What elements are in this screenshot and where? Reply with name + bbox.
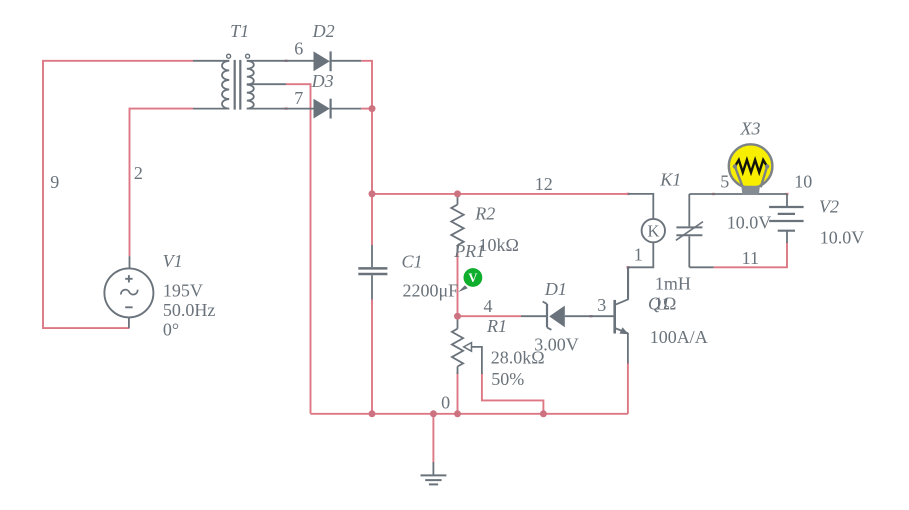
wire speck at coil to collector corner	[627, 266, 630, 269]
svg-text:R1: R1	[486, 316, 507, 336]
label C1	[401, 251, 422, 271]
wire net 7 connection speck	[285, 107, 288, 109]
label T1	[230, 21, 249, 41]
resistor R2	[451, 194, 463, 253]
label V1 value 195V	[163, 281, 203, 301]
ground	[421, 462, 447, 484]
label Q1 value 100A/A	[650, 327, 708, 347]
wire Q1 emitter to rail	[627, 363, 629, 414]
svg-text:2200μF: 2200μF	[403, 280, 459, 300]
svg-text:K1: K1	[659, 169, 681, 189]
svg-text:0: 0	[441, 393, 450, 413]
relay K1 coil	[628, 194, 665, 298]
svg-text:V1: V1	[163, 251, 183, 271]
zener diode D1	[521, 302, 591, 330]
transformer T1 primary lead bottom	[193, 108, 229, 110]
svg-text:50%: 50%	[491, 369, 524, 389]
junction node 12 left	[369, 190, 376, 197]
transformer T1 core	[235, 60, 241, 110]
label net 12	[535, 174, 553, 194]
label net 5	[720, 172, 729, 192]
label net 9	[50, 172, 59, 192]
label net 3	[597, 295, 606, 315]
label R1	[486, 316, 507, 336]
wire bottom rail net 0	[311, 413, 628, 415]
label Q1	[648, 294, 670, 314]
label X3	[740, 119, 761, 139]
label net 7	[294, 88, 303, 108]
wire net 11 gray part	[689, 266, 713, 268]
label D3	[311, 71, 334, 91]
label V2 value right	[820, 228, 865, 248]
svg-text:1Ω: 1Ω	[654, 294, 676, 314]
wire C1 bottom to rail	[371, 299, 373, 414]
transformer T1 secondary phase dot	[246, 54, 250, 58]
label K1 value 1 ohm	[654, 294, 676, 314]
label net 0	[441, 393, 450, 413]
battery V2	[769, 194, 804, 243]
svg-text:C1: C1	[401, 251, 422, 271]
wire net 9 (V1 bottom to T1 primary top)	[43, 61, 193, 328]
label V2	[819, 196, 839, 216]
junction node 7 at D3	[369, 105, 376, 112]
capacitor C1	[358, 245, 387, 300]
label R1 value 28.0k	[491, 347, 545, 367]
wire net 4 (to D1)	[458, 315, 522, 317]
wire R1 wiper return	[482, 373, 544, 414]
wire net 10 speck at battery top	[786, 193, 789, 195]
wire D2 cathode down to C1	[361, 61, 372, 245]
label R1 value 50%	[491, 369, 524, 389]
label net 2	[134, 163, 143, 183]
wire net 5 top rail (contact to battery)	[689, 193, 787, 195]
wire net 11 (battery bottom to contact)	[714, 243, 787, 268]
svg-text:D3: D3	[311, 71, 334, 91]
transistor Q1	[591, 268, 629, 364]
wire net 2 (T1 primary bottom to V1 top)	[130, 109, 194, 257]
transformer T1 primary phase dot	[227, 54, 231, 58]
svg-text:0°: 0°	[163, 319, 179, 339]
label V1 value 50.0Hz	[163, 300, 216, 320]
wire net 5 speck at lamp left	[712, 193, 715, 195]
wire speck at coil feed	[627, 193, 630, 195]
svg-text:195V: 195V	[163, 281, 203, 301]
svg-text:7: 7	[294, 88, 303, 108]
potentiometer R1	[452, 316, 482, 374]
wire R2 bottom to node 4	[457, 248, 459, 316]
wire net 6 connection speck	[285, 60, 288, 62]
svg-text:T1: T1	[230, 21, 249, 41]
svg-text:50.0Hz: 50.0Hz	[163, 300, 216, 320]
svg-text:X3: X3	[740, 119, 761, 139]
junction node 0 at R1	[454, 410, 461, 417]
transformer T1 secondary lead bottom	[247, 108, 314, 110]
wire speck at Q1 base	[590, 315, 593, 317]
junction node 0 at ground	[430, 410, 437, 417]
svg-text:10.0V: 10.0V	[727, 213, 772, 233]
AC source V1	[104, 256, 153, 328]
junction node 4	[454, 313, 461, 320]
svg-text:1mH: 1mH	[655, 273, 691, 293]
wire center tap net 0 (down to bottom rail)	[286, 84, 311, 414]
svg-text:9: 9	[50, 172, 59, 192]
label net 11	[742, 248, 759, 268]
probe PR1	[458, 268, 482, 292]
svg-text:100A/A: 100A/A	[650, 327, 708, 347]
wire D3 cathode to junction	[361, 108, 373, 110]
svg-text:V2: V2	[819, 196, 839, 216]
transformer T1 primary lead top	[193, 60, 229, 62]
label net 4	[484, 296, 493, 316]
label net 6	[294, 39, 303, 59]
svg-text:10.0V: 10.0V	[820, 228, 865, 248]
svg-text:R2: R2	[474, 203, 495, 223]
svg-text:4: 4	[484, 296, 493, 316]
svg-text:PR1: PR1	[453, 241, 485, 261]
label V2 value left	[727, 213, 772, 233]
wiper arrow	[464, 343, 472, 352]
label V1	[163, 251, 183, 271]
junction node 12 at R2	[454, 190, 461, 197]
svg-text:1: 1	[634, 245, 643, 265]
label K1	[659, 169, 681, 189]
svg-text:D2: D2	[312, 21, 335, 41]
junction node 0 at wiper return	[540, 410, 547, 417]
label net 10	[794, 172, 812, 192]
junction node 0 at C1	[369, 410, 376, 417]
wire R1 bottom to rail	[457, 372, 459, 414]
label D1 value 3.00V	[534, 334, 579, 354]
transformer T1 primary winding	[222, 61, 229, 109]
svg-text:2: 2	[134, 163, 143, 183]
svg-text:6: 6	[294, 39, 303, 59]
label R2	[474, 203, 495, 223]
svg-text:3: 3	[597, 295, 606, 315]
svg-text:D1: D1	[544, 279, 567, 299]
wire ground tap	[432, 414, 434, 463]
svg-text:5: 5	[720, 172, 729, 192]
label net 1	[634, 245, 643, 265]
svg-text:12: 12	[535, 174, 553, 194]
svg-text:3.00V: 3.00V	[534, 334, 579, 354]
label V1 value 0 deg	[163, 319, 179, 339]
transformer T1 center tap lead	[247, 83, 286, 85]
label PR1	[453, 241, 485, 261]
label K1 value 1mH	[655, 273, 691, 293]
relay K1 contact	[676, 194, 703, 267]
svg-text:V: V	[468, 271, 477, 285]
label R2 value	[479, 235, 519, 255]
transformer T1 secondary lead top	[247, 60, 314, 62]
diode D3	[314, 99, 362, 119]
label C1 value	[403, 280, 459, 300]
label D1	[544, 279, 567, 299]
transformer T1 secondary winding	[247, 61, 254, 109]
label D2	[312, 21, 335, 41]
wire top rail net 12	[372, 193, 628, 195]
svg-text:11: 11	[742, 248, 759, 268]
lamp X3	[729, 144, 773, 194]
diode D2	[314, 51, 362, 71]
svg-text:K: K	[648, 222, 660, 241]
svg-text:10: 10	[794, 172, 812, 192]
